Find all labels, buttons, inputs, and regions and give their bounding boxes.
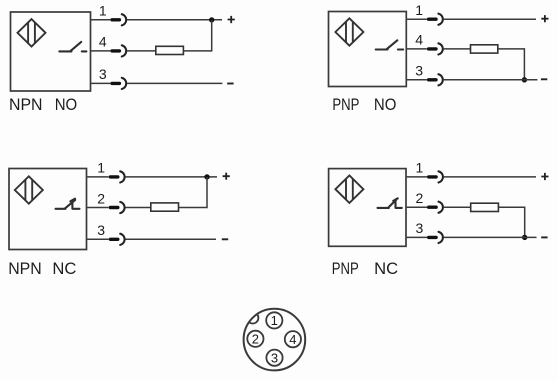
NO switch contact [376,40,404,49]
connector pin 3 [427,232,443,243]
load resistor [151,203,179,211]
wire pin3 to minus [444,79,538,81]
svg-text:2: 2 [97,190,105,206]
connector pin 1 [109,171,125,182]
connector pin 4 [110,45,126,56]
svg-text:2: 2 [416,190,424,206]
svg-text:NO: NO [374,95,397,114]
sensor box NPN NC [9,169,87,250]
wire pin1 to plus [444,176,536,178]
connector pin 4 circle [285,331,301,347]
NC switch contact [56,199,80,209]
load resistor [471,45,498,53]
minus terminal [222,238,228,240]
wire pin3 stub [406,79,427,81]
sensor diamond symbol [335,18,363,45]
sensor diamond symbol [335,176,363,203]
svg-text:1: 1 [416,160,424,176]
wire pin1 to plus [127,19,222,21]
svg-text:3: 3 [99,66,107,82]
connector pin 1 circle [266,312,282,328]
svg-text:3: 3 [415,63,423,79]
svg-text:1: 1 [97,160,105,176]
wire resistor to junction [183,20,211,51]
wire pin3 stub [87,238,109,240]
svg-text:NO: NO [55,95,77,114]
wire pin3 to minus [127,82,222,84]
wire pin3 to minus [125,238,216,240]
wire pin3 to minus [444,236,537,238]
svg-text:NPN: NPN [9,95,43,114]
wire pin4 to resistor [127,50,156,52]
svg-text:1: 1 [99,3,107,19]
load resistor [156,46,184,54]
wire pin2 to resistor [444,206,471,208]
connector pin 2 [427,202,443,213]
connector pin 2 circle [247,331,263,347]
wire pin1 to plus [444,18,536,20]
keying notch [247,312,258,323]
wire pin1 stub [87,176,109,178]
svg-text:3: 3 [97,222,105,238]
wire pin2 to resistor [125,207,150,209]
wire pin1 stub [91,19,111,21]
NC switch contact [378,198,402,208]
svg-text:2: 2 [252,332,259,347]
NO switch contact [59,42,86,52]
svg-text:3: 3 [271,350,278,365]
svg-text:NC: NC [52,259,76,278]
load resistor [471,203,499,211]
connector pin 2 [109,202,125,213]
minus terminal [541,78,547,80]
wire pin1 stub [406,176,427,178]
svg-text:PNP: PNP [332,95,359,114]
svg-text:NPN: NPN [8,259,42,278]
wire pin2 stub [406,206,427,208]
wire pin1 to plus [125,176,217,178]
sensor diamond symbol [15,176,43,203]
connector pin 1 [110,14,126,25]
plus terminal [541,173,548,180]
sensor box PNP NC [329,169,406,247]
connector pin 3 [109,234,125,245]
connector pin 3 [427,74,443,85]
plus terminal [228,16,235,23]
minus terminal [227,83,233,85]
wire resistor to junction [498,49,525,80]
svg-text:NC: NC [374,259,398,278]
wire pin1 stub [406,18,427,20]
svg-text:PNP: PNP [332,259,359,278]
connector body circle [244,309,306,371]
wire pin4 to resistor [444,48,471,50]
sensor box PNP NO [329,12,407,87]
connector pin 3 circle [266,350,282,366]
minus terminal [541,236,547,238]
svg-text:4: 4 [99,34,107,50]
svg-text:3: 3 [416,220,424,236]
svg-text:1: 1 [415,2,423,18]
connector pin 3 [110,78,126,89]
svg-text:1: 1 [271,313,278,328]
junction dot [209,17,214,22]
junction dot [204,174,209,179]
wire pin4 stub [406,48,427,50]
svg-text:4: 4 [415,32,423,48]
wire pin4 stub [91,50,111,52]
plus terminal [223,173,230,180]
junction dot [522,77,527,82]
wire pin2 stub [87,207,109,209]
plus terminal [541,15,548,22]
connector pin 1 [427,171,443,182]
wire pin3 stub [91,82,111,84]
connector pin 1 [427,14,443,25]
wire pin3 stub [406,236,427,238]
junction dot [522,235,527,240]
sensor diamond symbol [18,19,46,46]
wire resistor to junction [498,207,524,237]
sensor box NPN NO [11,12,91,91]
svg-text:4: 4 [289,332,296,347]
connector pin 4 [427,43,443,54]
wire resistor to junction [179,177,208,208]
